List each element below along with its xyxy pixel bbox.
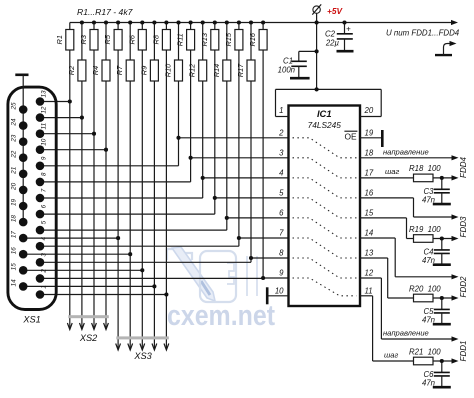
IC1 OE label (pin 19)	[344, 131, 357, 141]
wire IC1 pin 14: napravlenie FDD2	[360, 238, 459, 279]
wire XS1 pin 17 to column R5	[23, 237, 118, 239]
label napravlenie (FDD4)	[383, 147, 429, 156]
svg-text:R4: R4	[91, 66, 100, 75]
XS1 pin 10	[36, 138, 48, 154]
svg-text:R21 100: R21 100	[409, 347, 441, 356]
svg-text:R10: R10	[164, 63, 173, 77]
XS3 arrow 1	[116, 344, 121, 351]
XS2 label	[79, 333, 97, 343]
XS3 arrow 5	[164, 344, 169, 351]
svg-text:R11: R11	[176, 33, 185, 46]
node IC supply tap	[315, 87, 319, 91]
svg-text:19: 19	[365, 128, 374, 137]
wire column R1 / XS1 pin 13 to XS2	[69, 50, 71, 329]
svg-text:12: 12	[40, 106, 47, 114]
wire IC1 pin 16: napravlenie FDD3	[360, 198, 459, 220]
svg-text:11: 11	[40, 122, 47, 129]
resistor R1 (4k7 pull-up)	[55, 23, 74, 51]
svg-text:20: 20	[364, 106, 374, 115]
wire column R9 to XS3	[153, 81, 155, 350]
+5V power rail	[70, 20, 458, 25]
IC1 internal channel pin 9 to pin 11	[293, 278, 357, 296]
svg-text:R13: R13	[200, 32, 209, 46]
wire XS1 pin 16 to column R7	[23, 253, 130, 255]
XS2 arrow 1	[67, 323, 72, 330]
XS3 arrow 2	[128, 344, 133, 351]
svg-text:3: 3	[40, 253, 47, 257]
svg-text:100n: 100n	[278, 66, 295, 75]
svg-text:R3: R3	[79, 34, 88, 44]
svg-text:FDD4: FDD4	[459, 157, 468, 178]
svg-text:9: 9	[279, 269, 284, 278]
wire IC1 pin 6 lead	[227, 217, 289, 219]
XS1 pin 25	[11, 102, 28, 114]
svg-text:15: 15	[365, 208, 374, 217]
wire XS1 pin 14 to column R9	[23, 285, 154, 287]
IC1 pin 16 number	[365, 188, 374, 197]
label R1...R17 - 4k7	[77, 7, 134, 17]
resistor R5 (4k7 pull-up)	[103, 23, 122, 51]
svg-text:23: 23	[11, 134, 18, 143]
wire IC1 pin 19 to ground bar	[360, 130, 382, 147]
IC1 pin 12 number	[365, 269, 374, 278]
wire C1 branch	[299, 51, 317, 61]
svg-text:4: 4	[40, 236, 47, 240]
svg-text:10: 10	[275, 286, 284, 295]
wire column R12: resistor to IC pin 4 junction, down, left to XS1 pin 7	[40, 81, 203, 198]
svg-text:17: 17	[11, 231, 18, 239]
svg-text:R2: R2	[67, 66, 76, 75]
resistor R9 (4k7 pull-up)	[139, 23, 158, 82]
svg-text:14: 14	[11, 279, 18, 287]
svg-text:19: 19	[11, 199, 18, 207]
label FDD2	[459, 276, 468, 297]
ground for C6	[433, 386, 451, 389]
wire IC1 pin 13: shag FDD2	[360, 258, 459, 301]
svg-text:9: 9	[40, 156, 47, 160]
wire column R10: resistor to IC pin 2 junction, down, left to XS1 pin 9	[40, 81, 179, 166]
label napravlenie (FDD1)	[383, 329, 429, 338]
XS1 pin 7	[36, 188, 48, 202]
XS1 pin 22	[11, 150, 28, 162]
IC1 pin 6 number	[279, 208, 284, 217]
wire column R8 to XS3	[165, 50, 167, 350]
resistor R3 (4k7 pull-up)	[79, 23, 98, 51]
IC1 pin 20 number	[364, 106, 374, 115]
svg-text:направление: направление	[383, 147, 429, 156]
IC1 pin 9 number	[279, 269, 284, 278]
wire column R11: resistor to IC pin 3 junction, down, left to XS1 pin 8	[40, 50, 191, 182]
XS1 pin 13	[36, 90, 48, 106]
IC1 pin 11 number	[365, 286, 373, 295]
wire IC1 pin 5 lead	[215, 197, 289, 199]
wire XS1 pin 13 to column R1	[40, 101, 70, 103]
IC1 internal channel pin 5 to pin 15	[293, 198, 357, 218]
svg-text:22: 22	[11, 150, 18, 159]
IC1 pin 4 number	[279, 168, 284, 177]
IC1 internal channel pin 6 to pin 14	[293, 218, 357, 238]
IC1 pin 7 number	[279, 229, 284, 238]
svg-text:R9: R9	[139, 66, 148, 75]
svg-text:74LS245: 74LS245	[308, 120, 342, 130]
XS1 pin 5	[36, 220, 48, 234]
resistor R19 100	[409, 225, 441, 243]
wire column R16: resistor to IC pin 9 junction, down, left to XS1 pin 2	[40, 50, 263, 278]
XS1 pin 16	[11, 247, 28, 259]
connector XS1 shell (DB-25)	[8, 87, 56, 309]
svg-text:R8: R8	[151, 34, 160, 44]
IC1 pin 1 number	[279, 106, 283, 115]
wire IC1 pin 4 lead	[203, 177, 289, 179]
node FDD4 step junction	[440, 176, 444, 180]
IC1 pin 17 number	[365, 168, 374, 177]
svg-text:+5V: +5V	[327, 6, 343, 16]
svg-text:R5: R5	[103, 34, 112, 44]
wire XS1 pin 15 to column R6	[23, 269, 142, 271]
IC1 internal channel pin 7 to pin 13	[293, 238, 357, 258]
wire XS1 pin 12 to column R2	[40, 117, 82, 119]
wire column R2 / XS1 pin 12 to XS2	[81, 81, 83, 329]
capacitor C3 47n	[422, 178, 450, 205]
XS1 pin 18	[11, 215, 28, 227]
label shag (FDD1)	[384, 350, 399, 359]
connector XS2 bar	[68, 315, 109, 318]
XS3 arrow 4	[152, 344, 157, 351]
+5V label	[327, 6, 343, 16]
wire +5V down to IC supply	[316, 23, 318, 90]
power return arrow symbol	[435, 41, 457, 55]
wire column R17: resistor to IC pin 8 junction, down, left to XS1 pin 3	[40, 81, 251, 262]
node +5V rail junctions	[80, 20, 347, 24]
ground for C5	[433, 323, 451, 326]
IC1 pin 8 number	[279, 249, 284, 258]
XS1 pin 11	[36, 122, 48, 138]
svg-text:24: 24	[11, 118, 18, 127]
svg-text:7: 7	[40, 188, 47, 192]
svg-text:C1: C1	[283, 57, 293, 66]
wire IC1 pin 11: shag FDD1	[360, 296, 459, 364]
label FDD4	[459, 157, 468, 178]
svg-text:3: 3	[279, 148, 284, 157]
svg-text:6: 6	[279, 208, 284, 217]
resistor R6 (4k7 pull-up)	[127, 23, 146, 51]
label FDD1	[459, 341, 468, 362]
capacitor C1 100n	[278, 57, 307, 78]
svg-text:1: 1	[279, 106, 283, 115]
svg-text:XS3: XS3	[133, 351, 152, 361]
svg-text:FDD3: FDD3	[459, 216, 468, 237]
XS2 arrow 2	[80, 323, 85, 330]
XS1 pin 12	[36, 106, 48, 122]
svg-text:R20 100: R20 100	[409, 284, 441, 293]
resistor R11 (4k7 pull-up)	[176, 23, 195, 51]
svg-text:18: 18	[11, 215, 18, 223]
svg-text:16: 16	[365, 188, 374, 197]
XS1 pin 6	[36, 204, 48, 218]
svg-text:R14: R14	[212, 64, 221, 78]
resistor R13 (4k7 pull-up)	[200, 23, 219, 51]
wire column R14: resistor to IC pin 6 junction, down, left to XS1 pin 5	[40, 81, 227, 230]
resistor R18 100	[409, 164, 441, 182]
wire IC1 pin 17: shag FDD4	[360, 175, 459, 180]
IC1 internal channel pin 3 to pin 17	[293, 158, 357, 178]
watermark cxem.net logo	[167, 247, 257, 302]
IC1 pin 14 number	[365, 229, 374, 238]
resistor R2 (4k7 pull-up)	[67, 23, 86, 82]
label U pit FDD1...FDD4	[386, 29, 460, 38]
svg-text:шаг: шаг	[384, 350, 399, 359]
XS1 pin 14	[11, 279, 28, 291]
node FDD2 step junction	[440, 296, 444, 300]
svg-text:R17: R17	[236, 63, 245, 77]
IC1 pin 5 number	[279, 188, 284, 197]
svg-text:cxem.net: cxem.net	[167, 300, 275, 332]
svg-text:12: 12	[365, 269, 374, 278]
svg-text:R7: R7	[115, 65, 124, 75]
wire column R3 / XS1 pin 11 to XS2	[93, 50, 95, 329]
XS3 label	[133, 351, 152, 361]
svg-text:R6: R6	[127, 34, 136, 44]
wire IC1 pin 2 lead	[179, 137, 289, 139]
XS1 pin 8	[36, 172, 48, 186]
svg-text:FDD2: FDD2	[459, 276, 468, 297]
svg-text:6: 6	[40, 204, 47, 208]
XS1 pin 9	[36, 156, 48, 170]
resistor R14 (4k7 pull-up)	[212, 23, 231, 82]
resistor R8 (4k7 pull-up)	[151, 23, 170, 51]
label FDD3	[459, 216, 468, 237]
svg-text:+: +	[346, 25, 351, 34]
svg-text:25: 25	[11, 102, 18, 111]
svg-text:2: 2	[40, 269, 47, 274]
svg-text:8: 8	[279, 249, 284, 258]
XS1 pin 15	[11, 263, 28, 275]
svg-text:13: 13	[40, 90, 47, 98]
svg-text:IC1: IC1	[317, 108, 332, 119]
+5V supply symbol	[312, 4, 321, 22]
resistor R7 (4k7 pull-up)	[115, 23, 134, 82]
svg-text:U пит FDD1...FDD4: U пит FDD1...FDD4	[386, 29, 460, 38]
connector XS3 bar	[116, 336, 169, 339]
node XS1 pin junctions on pull-up columns	[68, 99, 169, 296]
wire column R15: resistor to IC pin 7 junction, down, left to XS1 pin 4	[40, 50, 239, 246]
svg-text:5: 5	[40, 220, 47, 224]
resistor R15 (4k7 pull-up)	[224, 23, 243, 51]
XS1 label	[22, 315, 40, 325]
wire IC1 pin 8 lead	[251, 257, 289, 259]
ground for C3	[433, 203, 451, 206]
svg-text:11: 11	[365, 286, 373, 295]
XS1 pin 4	[36, 236, 48, 250]
XS1 pin 17	[11, 231, 28, 243]
wire ground to pin 25 chain	[22, 75, 24, 222]
resistor R10 (4k7 pull-up)	[164, 23, 183, 82]
wire IC1 pin 3 lead	[191, 157, 289, 159]
wire column R6 to XS3	[141, 50, 143, 350]
label shag (FDD4)	[385, 167, 400, 176]
resistor R4 (4k7 pull-up)	[91, 23, 110, 82]
svg-text:8: 8	[40, 172, 47, 176]
resistor R17 (4k7 pull-up)	[236, 23, 255, 82]
ground for C4	[433, 263, 451, 266]
svg-text:17: 17	[365, 168, 374, 177]
resistor R16 (4k7 pull-up)	[248, 23, 267, 51]
IC1 pin 2 number	[278, 128, 284, 137]
svg-text:R1...R17 - 4k7: R1...R17 - 4k7	[77, 7, 134, 17]
XS2 arrow 3	[92, 323, 97, 330]
capacitor C5 47n	[422, 298, 450, 325]
wire column R7 to XS3	[129, 81, 131, 350]
wire XS1 pin 10 to column R4	[40, 149, 106, 151]
wire IC1 pin 15: shag FDD3	[360, 218, 459, 241]
capacitor C6 47n	[422, 361, 450, 388]
svg-text:направление: направление	[383, 329, 429, 338]
svg-text:2: 2	[278, 128, 284, 137]
node FDD3 step junction	[440, 236, 444, 240]
XS1 pin 2	[36, 269, 48, 283]
XS3 arrow 3	[140, 344, 145, 351]
svg-text:5: 5	[279, 188, 284, 197]
IC1 internal channel pin 2 to pin 18	[293, 138, 357, 158]
XS1 pin 21	[11, 166, 28, 178]
svg-text:21: 21	[11, 166, 18, 175]
svg-text:OE: OE	[345, 132, 358, 142]
node FDD1 step junction	[440, 359, 444, 363]
IC1 pin 19 number	[365, 128, 374, 137]
ground for C2	[337, 50, 354, 53]
XS1 pin 20	[11, 182, 28, 194]
svg-text:13: 13	[365, 249, 374, 258]
node IC1 input junctions on pull-up columns	[176, 136, 265, 280]
ground for C1	[290, 77, 310, 80]
wire XS1 pin 1 to column R8	[40, 294, 166, 296]
wire IC1 pin 7 lead	[239, 237, 289, 239]
svg-text:шаг: шаг	[385, 167, 400, 176]
svg-text:XS2: XS2	[79, 333, 97, 343]
XS2 arrow 4	[104, 323, 109, 330]
capacitor C4 47n	[422, 239, 450, 266]
svg-text:XS1: XS1	[22, 315, 40, 325]
wire column R4 / XS1 pin 10 to XS2	[105, 81, 107, 329]
IC1 pin 10 number	[275, 286, 284, 295]
wire IC1 pin 9 lead	[263, 277, 288, 279]
IC1 pin 13 number	[365, 249, 374, 258]
IC1 internal channel pin 4 to pin 16	[293, 178, 357, 198]
wire column R5 to XS3	[117, 50, 119, 350]
ground symbol (XS1 shield)	[15, 74, 28, 77]
svg-text:R18 100: R18 100	[409, 164, 441, 173]
wire to IC1 pins 1 and 20	[276, 89, 382, 116]
svg-text:10: 10	[40, 138, 47, 146]
svg-text:22µ: 22µ	[325, 39, 340, 48]
wire column R13: resistor to IC pin 5 junction, down, left to XS1 pin 6	[40, 50, 215, 214]
wire IC1 pin 10 to ground bar	[267, 287, 288, 304]
XS1 pin 19	[11, 199, 28, 211]
svg-text:R1: R1	[55, 35, 64, 44]
wire XS1 pin 11 to column R3	[40, 133, 94, 135]
svg-text:FDD1: FDD1	[459, 341, 468, 362]
IC1 pin 18 number	[365, 148, 374, 157]
XS1 pin 1	[36, 285, 48, 299]
op-amp-style box: IC1 74LS245	[289, 106, 361, 307]
svg-text:R15: R15	[224, 32, 233, 46]
wire IC1 pin 12: napravlenie FDD1	[360, 278, 459, 342]
XS1 pin 23	[11, 134, 28, 146]
svg-text:14: 14	[365, 229, 374, 238]
svg-text:R16: R16	[248, 32, 257, 46]
capacitor C2 22u electrolytic	[325, 23, 353, 51]
svg-text:R12: R12	[188, 64, 197, 78]
svg-text:20: 20	[11, 182, 18, 191]
IC1 pin 3 number	[279, 148, 284, 157]
IC1 pin 15 number	[365, 208, 374, 217]
svg-text:1: 1	[40, 285, 47, 289]
svg-text:7: 7	[279, 229, 284, 238]
svg-text:4: 4	[279, 168, 284, 177]
svg-text:16: 16	[11, 247, 18, 255]
XS1 pin 3	[36, 253, 48, 267]
resistor R12 (4k7 pull-up)	[188, 23, 207, 82]
XS1 pin 24	[11, 118, 28, 130]
svg-text:C2: C2	[325, 30, 336, 39]
resistor R21 100	[409, 347, 441, 365]
node C1 tap	[315, 49, 319, 53]
wire IC1 pin 18: napravlenie FDD4	[360, 155, 459, 160]
svg-text:15: 15	[11, 263, 18, 271]
svg-text:18: 18	[365, 148, 374, 157]
resistor R20 100	[409, 284, 441, 302]
IC1 internal channel pin 8 to pin 12	[293, 258, 357, 278]
svg-text:R19 100: R19 100	[409, 225, 441, 234]
